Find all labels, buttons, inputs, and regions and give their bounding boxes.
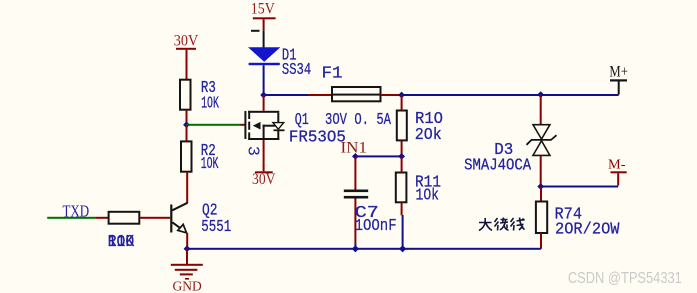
- svg-text:3OV O. 5A: 3OV O. 5A: [325, 111, 392, 130]
- node R3/R2/gate junction: [183, 121, 190, 128]
- wire R to Q2 base (dark red): [139, 217, 170, 219]
- svg-text:R1O: R1O: [108, 233, 135, 252]
- power 30V (top left): [174, 33, 199, 81]
- ground GND: [171, 249, 203, 293]
- svg-text:SS34: SS34: [282, 61, 311, 80]
- svg-text:5551: 5551: [201, 218, 231, 237]
- svg-text:15V: 15V: [251, 0, 275, 17]
- wire M- rail (blue): [541, 186, 619, 188]
- wire Q1 drain pin (red, top): [263, 95, 265, 111]
- svg-text:1Ok: 1Ok: [416, 186, 440, 205]
- power 30V (below Q1): [252, 171, 276, 188]
- svg-text:SMAJ4OCA: SMAJ4OCA: [464, 156, 532, 175]
- resistor R2: [181, 125, 219, 203]
- wire top rail D3 to M+ (blue): [541, 94, 619, 96]
- svg-text:30V: 30V: [252, 171, 276, 188]
- wire gate (green): [187, 124, 241, 126]
- wire Q2 collector (red): [186, 202, 188, 204]
- port M+: [609, 64, 628, 95]
- transistor Q1 FR5305 (P-MOSFET): [243, 111, 346, 156]
- node F1/R10/rail junction: [398, 92, 405, 99]
- wire fuse to junction (red): [381, 94, 402, 96]
- wire Q2 emitter to bus (red): [186, 233, 188, 249]
- capacitor C7: [344, 156, 397, 248]
- resistor R10/10K (base resistor, overlapped label): [108, 212, 140, 252]
- resistor R11: [396, 156, 441, 248]
- wire Q1 source pin (red, bottom): [263, 140, 265, 171]
- svg-text:2OR/2OW: 2OR/2OW: [555, 221, 620, 240]
- svg-text:M-: M-: [608, 157, 626, 172]
- resistor R3: [180, 79, 219, 125]
- svg-text:GND: GND: [173, 279, 202, 293]
- wire junction to fuse (blue then red): [264, 94, 308, 96]
- wire IN1 (blue): [355, 155, 401, 157]
- svg-text:3: 3: [243, 146, 262, 156]
- node emitter/bus junction: [184, 245, 191, 252]
- svg-text:M+: M+: [609, 64, 628, 81]
- svg-text:30V: 30V: [174, 33, 199, 50]
- svg-text:IN1: IN1: [341, 140, 368, 157]
- node D3/M-/R74 junction: [537, 183, 544, 190]
- svg-text:FR53O5: FR53O5: [289, 128, 346, 147]
- wire D1 to junction (blue): [263, 65, 265, 95]
- wire gate pin (dark red): [241, 124, 246, 126]
- node D3 top junction: [537, 91, 544, 98]
- svg-text:CSDN @TPS54331: CSDN @TPS54331: [568, 270, 682, 287]
- tick near 15V: [251, 30, 260, 32]
- svg-text:2Ok: 2Ok: [415, 126, 442, 145]
- port M-: [608, 157, 627, 185]
- svg-text:Q1: Q1: [295, 111, 309, 130]
- node R11 bottom junction: [399, 245, 406, 252]
- transistor Q2 5551: [170, 202, 231, 238]
- wire top rail to D3 (blue): [402, 94, 541, 96]
- resistor R10: [397, 95, 443, 156]
- node IN1/R10/R11 junction: [398, 153, 405, 160]
- svg-text:1OK: 1OK: [201, 95, 219, 114]
- fuse F1: [322, 65, 392, 131]
- wire TXD to R (dark red): [95, 217, 108, 219]
- node D1/Q1/F1 junction: [260, 92, 267, 99]
- wire 15V to D1 (black): [263, 30, 265, 47]
- svg-text:F1: F1: [322, 65, 343, 84]
- svg-text:1OK: 1OK: [201, 155, 219, 174]
- power 15V: [251, 0, 276, 30]
- wire bottom bus (blue): [187, 248, 541, 250]
- diode D3 SMAJ40CA (TVS): [464, 95, 556, 187]
- text 大绕线: [479, 218, 525, 231]
- wire TXD (green): [47, 217, 95, 219]
- node C7 bottom junction: [352, 245, 359, 252]
- svg-text:1OOnF: 1OOnF: [355, 217, 397, 236]
- node IN1/C7 junction: [352, 153, 359, 160]
- diode D1 SS34: [248, 46, 311, 80]
- resistor R74: [536, 187, 620, 249]
